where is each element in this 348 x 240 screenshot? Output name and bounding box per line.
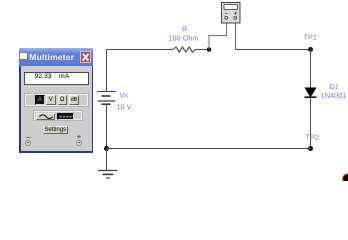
node TP1	[308, 47, 313, 52]
svg-text:Vs: Vs	[120, 91, 129, 100]
ground	[98, 171, 118, 179]
wire: left vertical (top rail to battery top)	[106, 50, 108, 92]
svg-text:TP2: TP2	[306, 133, 319, 142]
button V	[46, 95, 56, 105]
title bar icon	[20, 53, 27, 59]
junction (battery / bottom rail / ground node)	[104, 146, 109, 151]
wire: ground stub	[106, 149, 108, 171]
minus terminal label	[25, 134, 32, 140]
title bar	[19, 48, 93, 66]
panel body	[21, 66, 92, 151]
circuit schematic SVG	[0, 0, 348, 181]
value label 1N4001	[321, 91, 347, 100]
mode button group frame	[24, 93, 89, 107]
svg-text:D1: D1	[330, 82, 339, 91]
button AC (sine)	[36, 113, 55, 121]
multimeter panel window	[19, 48, 93, 153]
diode D1	[305, 88, 317, 97]
svg-text:1N4001: 1N4001	[321, 91, 347, 100]
source Vs (battery)	[97, 92, 116, 105]
AC/DC group frame	[33, 110, 83, 121]
svg-text:TP1: TP1	[304, 33, 317, 42]
wire: bottom horizontal rail to TP2	[107, 148, 311, 150]
title text	[29, 52, 74, 62]
label R	[182, 24, 187, 33]
junction (resistor output node)	[207, 47, 212, 52]
measurement display	[24, 72, 89, 86]
button Ohm	[58, 95, 68, 105]
label D1	[330, 82, 339, 91]
Settings button	[43, 126, 68, 134]
label TP1	[304, 33, 317, 42]
svg-text:R: R	[182, 24, 187, 33]
wire: TP1 down through diode to TP2	[310, 50, 312, 149]
wire: resistor right lead to junction	[195, 49, 209, 51]
plus terminal	[76, 140, 82, 146]
wire: junction up to multimeter minus terminal	[209, 23, 227, 50]
value label 100 Ohm	[169, 33, 199, 42]
corner artifact (partially cropped dark dot)	[343, 174, 348, 183]
svg-text:100 Ohm: 100 Ohm	[169, 33, 199, 42]
wire: battery bottom to ground node	[106, 104, 108, 148]
close button X	[80, 51, 91, 64]
label TP2	[306, 133, 319, 142]
svg-text:10 V: 10 V	[117, 102, 132, 111]
wire: top horizontal (corner to resistor left lead)	[107, 49, 174, 51]
button dB	[69, 95, 79, 105]
node TP2	[308, 146, 313, 151]
wire: meter output rail to TP1	[236, 49, 311, 51]
wire: multimeter plus terminal down to TP1 rail	[235, 23, 237, 50]
resistor R	[173, 47, 195, 52]
minus terminal	[25, 140, 31, 146]
label Vs	[120, 91, 129, 100]
value label 10 V	[117, 102, 132, 111]
multimeter icon XMM1	[222, 3, 241, 24]
button DC (pressed)	[57, 113, 74, 121]
button A (pressed)	[35, 95, 45, 105]
plus terminal label	[76, 133, 83, 140]
